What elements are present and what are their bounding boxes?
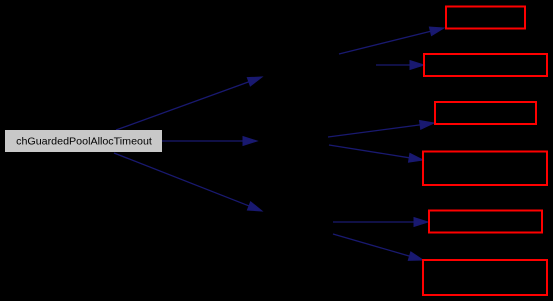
node chGuardedPoolAllocTimeout (current function, gray): [5, 130, 162, 152]
svg-text:chGuardedPoolAllocTimeout: chGuardedPoolAllocTimeout: [16, 136, 152, 148]
red box 5: [429, 211, 542, 233]
red box 2: [424, 54, 547, 76]
red box 4 (two-line callee): [423, 152, 547, 186]
edge chGuardedPoolAllocTimeout -> node3 (lower): [114, 153, 262, 211]
red box 6 (two-line callee): [423, 260, 547, 295]
edge node2 -> red box 4: [329, 145, 423, 162]
edge node3 -> red box 6: [333, 234, 423, 260]
edge chGuardedPoolAllocTimeout -> node2 (middle, horizontal): [162, 137, 257, 146]
edge node3 -> red box 5 (horizontal): [333, 218, 428, 227]
edge node2 -> red box 3: [328, 121, 434, 138]
edge chGuardedPoolAllocTimeout -> node1 (upper): [116, 77, 262, 130]
red box 1 (top right callee): [446, 7, 525, 29]
red box 3: [435, 102, 536, 124]
edge node1 -> red box 1: [339, 27, 444, 54]
edge node1 -> red box 2 (horizontal): [376, 61, 424, 70]
